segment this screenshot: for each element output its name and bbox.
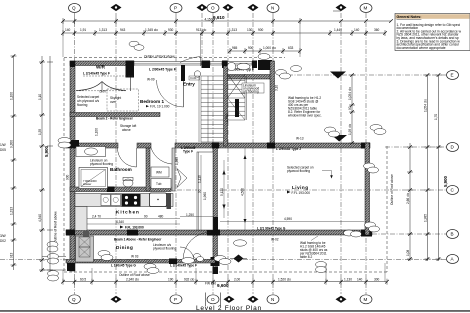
wall bedroom south corner black	[66, 140, 79, 148]
detail oval pair bottom left 1	[48, 254, 59, 260]
svg-text:1,70: 1,70	[434, 114, 438, 120]
svg-text:WM: WM	[156, 171, 162, 175]
bathroom vanity	[76, 147, 106, 157]
svg-text:900: 900	[248, 46, 254, 50]
wall stair lower vertical	[213, 148, 218, 272]
wall left exterior	[70, 61, 75, 263]
svg-text:130: 130	[247, 28, 253, 32]
detail oval pair entry right	[276, 70, 287, 76]
svg-text:930: 930	[168, 28, 174, 32]
svg-text:L 2/140x45 Type F: L 2/140x45 Type F	[170, 264, 197, 268]
wall top pier black x222	[222, 61, 228, 69]
detail oval W-06	[291, 66, 302, 72]
dining door arcs	[183, 232, 211, 260]
wall lower left vertical	[70, 235, 75, 271]
dim 4590 living	[220, 221, 364, 223]
stove black	[122, 194, 141, 207]
detail oval pair right of dining door	[214, 256, 226, 262]
detail oval pair top left dims	[129, 41, 139, 47]
wall top entry black pier	[258, 60, 272, 70]
svg-text:1,054 clo: 1,054 clo	[424, 99, 428, 112]
svg-text:W/R: W/R	[96, 65, 106, 70]
svg-text:W-13: W-13	[296, 137, 304, 141]
stairs circle marker	[194, 71, 200, 77]
svg-text:1,313: 1,313	[229, 28, 237, 32]
grid bubble M bottom	[360, 295, 372, 304]
svg-text:Outline of Roof above: Outline of Roof above	[390, 174, 394, 205]
wall south main y230	[66, 230, 372, 235]
tick slashes left x13.5	[12, 54, 16, 267]
grid line E horizontal	[288, 74, 446, 76]
grid bubble O top	[207, 4, 219, 13]
detail oval pair living SE corner	[344, 230, 355, 236]
grid line P vertical	[175, 13, 177, 294]
svg-text:1,100: 1,100	[10, 92, 14, 100]
grid diamond top x116	[111, 4, 122, 11]
detail oval pair living east lower	[365, 222, 376, 228]
wall stairs east upper	[224, 66, 228, 146]
svg-text:Q: Q	[72, 297, 76, 302]
svg-text:O: O	[211, 6, 215, 11]
wall south east cap	[361, 230, 372, 237]
svg-text:Q: Q	[72, 6, 76, 11]
grid diamond bottom x116	[111, 296, 122, 303]
svg-text:1,10: 1,10	[38, 94, 42, 100]
tick slashes y33	[61, 31, 387, 35]
grid bubble Q bottom	[69, 295, 81, 304]
svg-text:M: M	[364, 6, 368, 11]
svg-text:943: 943	[120, 28, 126, 32]
svg-text:M: M	[364, 297, 368, 302]
svg-text:3/W: 3/W	[0, 234, 6, 238]
top dim line segments	[63, 32, 385, 34]
wall living north pier x267	[267, 143, 275, 149]
svg-text:4,340: 4,340	[116, 220, 124, 224]
svg-text:3,10: 3,10	[275, 85, 279, 91]
svg-text:above: above	[122, 128, 131, 132]
wall south pier x207	[207, 230, 220, 236]
svg-text:Bedroom 1: Bedroom 1	[140, 99, 164, 104]
toilet	[123, 179, 133, 187]
title underline full width	[0, 310, 470, 311]
wall nook east vertical	[172, 148, 175, 191]
grid line N vertical	[272, 13, 274, 294]
roof outline dashed right	[386, 146, 388, 272]
grid line D horizontal	[385, 146, 446, 148]
wall living north segment	[175, 143, 212, 148]
svg-text:P: P	[174, 6, 177, 11]
W/R closet dashed rail	[83, 75, 134, 77]
bedroom door arc	[157, 80, 184, 107]
roof outline dashed left	[63, 58, 65, 272]
roof outline dashed top	[64, 57, 285, 59]
tick slashes right x427	[426, 73, 430, 261]
wall top pier black x201	[202, 61, 211, 69]
top dim line closet	[230, 50, 300, 52]
kitchen FFL	[120, 226, 124, 229]
detail oval pair bottom left 0	[47, 242, 58, 248]
svg-text:1,100: 1,100	[95, 128, 99, 136]
svg-text:913: 913	[10, 252, 14, 258]
svg-text:L 190x45 Type G: L 190x45 Type G	[111, 264, 136, 268]
tick slashes y51	[228, 49, 302, 53]
svg-text:480: 480	[158, 215, 164, 219]
wall living north east cap	[361, 143, 370, 149]
grid diamond top x341	[336, 4, 347, 11]
svg-text:1,985: 1,985	[175, 157, 179, 165]
svg-text:Bathroom: Bathroom	[110, 167, 132, 172]
bottom dim line	[63, 281, 387, 283]
svg-text:1,55: 1,55	[38, 129, 42, 135]
living FFL	[287, 191, 291, 194]
svg-text:1,054 clo: 1,054 clo	[348, 87, 352, 100]
svg-text:N: N	[271, 297, 274, 302]
svg-text:L 2/1 90x45 Type G: L 2/1 90x45 Type G	[257, 227, 286, 231]
grid bubble P top	[170, 4, 182, 13]
tick slashes left x42	[40, 60, 44, 272]
W/R closet dashed lines lower	[76, 90, 126, 92]
svg-text:1,95 clo: 1,95 clo	[348, 124, 352, 135]
svg-text:4,340: 4,340	[38, 214, 42, 222]
window top bedroom1	[134, 62, 202, 66]
svg-text:N: N	[271, 6, 274, 11]
svg-text:1,985: 1,985	[424, 214, 428, 222]
bedroom door leaf	[183, 80, 185, 107]
svg-text:5,120: 5,120	[220, 188, 224, 196]
grid line C horizontal	[150, 189, 446, 191]
wall entry east vertical	[270, 61, 275, 146]
interior vertical dim x224	[222, 170, 225, 175]
detail oval pair small x198	[194, 254, 201, 259]
svg-text:Outline of Roof above: Outline of Roof above	[144, 55, 175, 59]
svg-text:Beam 1 Above - Refer Engineer: Beam 1 Above - Refer Engineer	[114, 238, 162, 242]
W/R bifold door arcs	[76, 82, 102, 91]
svg-text:D02: D02	[0, 239, 6, 243]
left dim line inner	[49, 56, 51, 272]
svg-text:o/s flooring: o/s flooring	[243, 90, 259, 94]
wall stub right of fridge	[167, 193, 172, 209]
grid bubble Q top	[69, 4, 81, 13]
section diamond dining	[234, 255, 244, 263]
interior vertical dim x245	[244, 148, 246, 230]
svg-text:1/W: 1/W	[0, 143, 6, 147]
svg-text:Outline of Roof above: Outline of Roof above	[54, 211, 58, 243]
svg-text:L 2/140x45 Type F: L 2/140x45 Type F	[83, 72, 110, 76]
svg-text:1,08: 1,08	[406, 250, 410, 256]
svg-text:1,130: 1,130	[344, 278, 352, 282]
svg-text:Type F: Type F	[183, 150, 193, 154]
svg-text:2,340 clo: 2,340 clo	[126, 278, 139, 282]
grid line B horizontal	[372, 233, 446, 235]
svg-text:1,110: 1,110	[198, 175, 202, 183]
svg-text:5,900: 5,900	[443, 175, 448, 187]
wall left corner cap top	[70, 61, 75, 67]
svg-text:General Notes:: General Notes:	[397, 15, 422, 19]
deck gray rect kitchen lower	[76, 236, 94, 262]
svg-text:plywood flooring: plywood flooring	[153, 247, 176, 251]
svg-text:90: 90	[198, 189, 202, 193]
svg-text:Outline of Roof above: Outline of Roof above	[119, 273, 150, 277]
svg-text:913 clo: 913 clo	[196, 28, 207, 32]
svg-text:1,91: 1,91	[80, 28, 86, 32]
svg-text:flooring: flooring	[77, 103, 88, 107]
svg-text:1,520 clo: 1,520 clo	[278, 278, 291, 282]
grid bubble C right	[447, 186, 459, 195]
fridge box	[150, 193, 167, 207]
tick slashes y21	[61, 19, 302, 23]
svg-text:D05: D05	[0, 148, 6, 152]
wall top pier black x125 closet stub	[126, 61, 135, 78]
svg-text:documentation where appropriat: documentation where appropriate	[397, 46, 446, 50]
kitchen dim line	[87, 218, 180, 220]
grid diamond line x116	[115, 13, 117, 294]
svg-text:965: 965	[232, 46, 238, 50]
svg-text:over: over	[110, 100, 117, 104]
tick slashes right x438	[437, 73, 441, 261]
stairs cross diagonals	[228, 74, 246, 98]
extra ticks y21 right	[339, 19, 393, 23]
tub box	[151, 179, 171, 189]
svg-text:Kitchen: Kitchen	[116, 210, 140, 215]
dim 1250	[180, 216, 213, 218]
grid line O vertical	[212, 13, 214, 294]
wall living north pier x213	[212, 143, 219, 149]
right dim line x438.5	[438, 75, 440, 261]
window top entry	[228, 62, 253, 66]
svg-text:4,500: 4,500	[241, 188, 245, 196]
svg-text:360: 360	[374, 28, 380, 32]
detail oval WD01	[234, 240, 247, 246]
grid diamond top x202	[197, 4, 208, 11]
grid bubble E right	[447, 71, 459, 80]
bottom risers	[63, 263, 385, 282]
beam W03 black pier x170	[169, 259, 177, 265]
svg-text:9,600: 9,600	[217, 283, 229, 288]
top dim line overall	[63, 20, 391, 22]
entry D-01 label box	[189, 76, 200, 80]
wall lower left bottom cap	[67, 263, 75, 271]
wall south pier left	[66, 230, 75, 236]
wall stair lower black cap bottom	[213, 267, 219, 274]
svg-text:D-07: D-07	[100, 89, 107, 93]
svg-text:Living: Living	[292, 185, 309, 190]
svg-text:9,300: 9,300	[10, 140, 14, 148]
svg-text:1,440: 1,440	[334, 28, 342, 32]
grid bubble O bottom	[207, 295, 219, 304]
front door dim riser	[200, 33, 202, 56]
kitchen counter top band	[75, 194, 173, 207]
svg-text:932 clo: 932 clo	[184, 278, 195, 282]
svg-text:Beam 2 - Refer Engineer: Beam 2 - Refer Engineer	[96, 117, 134, 121]
grid diamond top x253	[248, 4, 259, 11]
svg-text:B: B	[451, 232, 454, 237]
tick slashes right x410	[408, 145, 412, 261]
svg-text:L 2/90x45 Type F: L 2/90x45 Type F	[149, 68, 176, 72]
entry interior bulkhead wall	[228, 75, 273, 80]
svg-text:2,66 clo: 2,66 clo	[406, 193, 410, 204]
svg-text:4,150: 4,150	[205, 17, 213, 21]
grid diamond bottom x253	[248, 296, 259, 303]
grid diamond line x253	[252, 13, 254, 294]
svg-text:W-02: W-02	[271, 238, 279, 242]
section triangle on E line	[330, 72, 346, 79]
grid line A horizontal	[0, 259, 446, 261]
svg-text:90: 90	[144, 215, 148, 219]
skylight dashed rect	[107, 89, 139, 111]
svg-text:W 03: W 03	[131, 255, 139, 259]
top small verticals	[62, 21, 64, 57]
sink double	[101, 195, 111, 206]
wall living east vertical	[365, 143, 370, 235]
wall south pier x127	[127, 230, 138, 236]
general notes box	[395, 14, 470, 51]
svg-text:9,610: 9,610	[213, 15, 225, 20]
detail oval single W	[182, 258, 195, 264]
shower box	[79, 168, 108, 189]
closet bifold doors	[177, 169, 187, 188]
grid bubble N bottom	[267, 295, 279, 304]
grid diamond top x228	[223, 4, 234, 11]
wall bathroom south y187	[70, 187, 171, 192]
grid diamond line x202 (top only)	[201, 13, 203, 63]
grid diamond bottom x229	[224, 296, 235, 303]
wall top pier black x252	[252, 61, 257, 69]
detail oval pair living east mid	[364, 163, 375, 169]
grid line Q vertical	[74, 13, 76, 294]
tick slashes bottom	[61, 280, 389, 284]
grid bubble M top	[360, 4, 372, 13]
svg-text:L 2/90x45 Type J: L 2/90x45 Type J	[276, 147, 301, 151]
svg-text:window lintel over spec.: window lintel over spec.	[288, 114, 322, 118]
svg-text:140: 140	[354, 28, 360, 32]
svg-text:Entry: Entry	[183, 82, 195, 87]
wall south of bedroom mid segment	[137, 143, 151, 148]
WM box	[151, 167, 169, 177]
svg-text:60.5: 60.5	[80, 278, 86, 282]
svg-text:2,4 70: 2,4 70	[92, 215, 101, 219]
svg-text:F.FL 193.000: F.FL 193.000	[292, 191, 311, 195]
stairwell dim ticks	[200, 155, 202, 230]
grid diamond line x228	[227, 13, 229, 294]
right dim line entry x352	[351, 75, 353, 143]
svg-text:1,345 clo: 1,345 clo	[145, 28, 158, 32]
closet right thin wall	[130, 77, 132, 91]
detail oval pair NE living corner	[370, 125, 382, 131]
svg-text:633: 633	[288, 46, 294, 50]
grid diamond line x341	[340, 13, 342, 294]
svg-text:F.FL 19 1.000: F.FL 19 1.000	[150, 105, 170, 109]
bathroom door arc	[136, 148, 138, 167]
beam-stairwall junction black	[211, 257, 220, 266]
svg-text:table 8.2: table 8.2	[300, 255, 312, 259]
svg-text:plywood flooring: plywood flooring	[287, 169, 310, 173]
detail oval pair above triangle	[325, 127, 336, 133]
svg-text:1,760: 1,760	[225, 114, 229, 122]
svg-text:2,00: 2,00	[234, 278, 240, 282]
svg-text:1,000 clo: 1,000 clo	[263, 46, 276, 50]
tick slashes x352	[350, 73, 354, 145]
left dim line outer	[13, 56, 15, 270]
linoleum note entry	[242, 83, 264, 93]
detail oval pair below beam	[144, 264, 156, 270]
kitchen left counter	[75, 207, 87, 231]
wall living north segment2	[219, 143, 370, 148]
beam W03 band y260	[66, 260, 215, 264]
grid bubble N top	[267, 4, 279, 13]
entry west wall stub	[181, 65, 185, 81]
roof outline dashed bottom	[64, 271, 387, 273]
detail circle entry top	[227, 62, 235, 70]
grid line M vertical	[365, 13, 367, 294]
section triangle mid	[332, 135, 348, 142]
grid bubble D right	[447, 143, 459, 152]
wall stair lower black cap mid	[213, 217, 219, 231]
svg-text:Dining: Dining	[116, 245, 133, 250]
left stub lines	[42, 256, 66, 258]
stairs upper flight treads	[199, 76, 224, 142]
svg-text:5,900: 5,900	[44, 145, 49, 157]
svg-text:E: E	[451, 73, 454, 78]
hall door arc in wall y143	[151, 148, 175, 164]
grid bubble A right	[447, 255, 459, 264]
wall bathroom east vertical	[146, 148, 150, 191]
bedroom 1 FFL	[146, 105, 149, 107]
svg-text:900: 900	[66, 174, 70, 180]
O bottom bubble brackets	[205, 293, 207, 307]
svg-text:4,590: 4,590	[284, 217, 292, 221]
svg-text:FW 140: FW 140	[205, 282, 216, 286]
svg-text:Tub: Tub	[156, 182, 162, 186]
entry front door arc	[200, 57, 202, 67]
svg-text:P: P	[174, 297, 177, 302]
wall bedroom south y143	[66, 143, 118, 148]
deck posts	[83, 231, 89, 237]
svg-text:1,313: 1,313	[10, 207, 14, 215]
window top O	[210, 62, 222, 66]
detail oval pair kitchen south	[98, 251, 110, 257]
stairs right flight treads	[228, 76, 247, 120]
grid diamond bottom x341	[336, 296, 347, 303]
grid bubble B right	[447, 230, 459, 239]
detail oval pair living SE below	[316, 262, 327, 268]
left dim line mid	[41, 56, 43, 272]
detail oval pair bottom left 2	[48, 271, 59, 277]
svg-text:90: 90	[348, 106, 352, 110]
right dim line x427.5	[427, 75, 429, 261]
svg-text:140: 140	[357, 278, 363, 282]
right dim line x410	[409, 143, 411, 261]
svg-text:F.FL 193.000: F.FL 193.000	[125, 226, 144, 230]
svg-text:140: 140	[65, 28, 71, 32]
svg-text:900: 900	[258, 28, 264, 32]
grid bubble P bottom	[170, 295, 182, 304]
svg-text:1,250: 1,250	[186, 213, 194, 217]
svg-text:shower: shower	[83, 182, 91, 186]
svg-text:plywood flooring: plywood flooring	[90, 162, 113, 166]
wall bathroom south pier	[107, 187, 115, 193]
detail oval above entry pier	[258, 54, 270, 60]
svg-text:O: O	[211, 297, 215, 302]
svg-text:190: 190	[168, 278, 174, 282]
lower stairwell rect	[197, 152, 213, 230]
svg-text:1,960: 1,960	[203, 192, 207, 200]
wall top hatched W/R segment	[70, 61, 134, 66]
svg-text:300: 300	[374, 278, 380, 282]
detail oval pair left wall C	[58, 138, 71, 144]
svg-text:W-09: W-09	[147, 78, 155, 82]
svg-text:1,313: 1,313	[99, 28, 107, 32]
beam 2 hatched band	[70, 113, 160, 117]
